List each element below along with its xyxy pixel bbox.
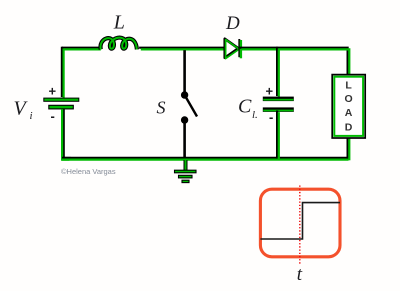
ground bar 2: [179, 175, 193, 178]
wire top rail middle segment (inductor to diode): [139, 48, 226, 50]
wire top rail right segment (diode to right corner, down to LOAD): [240, 48, 350, 76]
svg-text:V: V: [14, 98, 29, 120]
svg-text:i: i: [30, 110, 33, 122]
LOAD box: [332, 75, 365, 138]
switch upper contact dot: [181, 91, 188, 98]
inset red dotted time marker: [299, 186, 301, 265]
svg-text:S: S: [157, 98, 166, 118]
switch blade: [185, 95, 197, 117]
svg-text:C: C: [238, 96, 252, 118]
wire left vertical upper (top rail to battery +): [62, 47, 64, 99]
svg-text:L: L: [345, 80, 352, 92]
ground stem: [184, 160, 188, 172]
svg-text:A: A: [345, 107, 353, 119]
svg-text:-: -: [51, 109, 55, 124]
inset waveform box: [260, 189, 340, 257]
ground bar 3: [182, 180, 189, 182]
svg-text:O: O: [345, 93, 353, 105]
bottom rail wire: [62, 158, 349, 160]
switch S upper black lead: [183, 50, 186, 95]
svg-text:+: +: [266, 84, 274, 99]
inductor L: [100, 38, 136, 50]
svg-text:-: -: [269, 110, 273, 125]
wire top rail left segment (Vi to inductor): [62, 48, 101, 50]
wire capacitor branch lower: [277, 111, 279, 161]
switch S lower black lead: [183, 120, 186, 157]
ground bar 1: [175, 170, 197, 173]
svg-text:L: L: [113, 12, 125, 34]
svg-text:©Helena Vargas: ©Helena Vargas: [61, 167, 116, 176]
svg-text:t: t: [297, 264, 303, 285]
svg-text:D: D: [345, 122, 353, 134]
capacitor Cl: [263, 97, 294, 112]
wire LOAD bottom lead: [348, 137, 350, 161]
wire left vertical lower (battery - to bottom rail): [62, 109, 71, 159]
inset step waveform: [260, 203, 340, 239]
svg-text:l.: l.: [252, 109, 258, 121]
svg-text:+: +: [49, 83, 57, 98]
switch lower contact dot: [181, 116, 188, 123]
svg-text:D: D: [225, 13, 240, 34]
wire capacitor branch upper: [277, 47, 279, 98]
diode D: [225, 39, 241, 59]
battery Vi: [44, 98, 79, 109]
LOAD letters: [345, 80, 353, 134]
